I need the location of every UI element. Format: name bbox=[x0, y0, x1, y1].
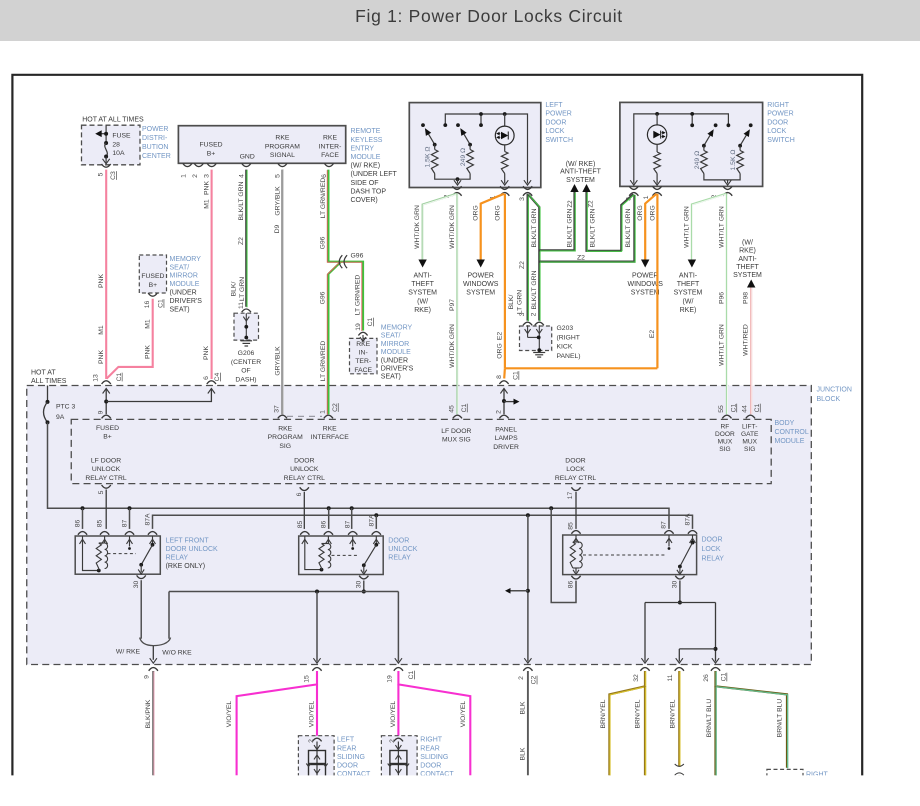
Body Control Module box bbox=[71, 419, 771, 483]
bus branch to door lock relay 86 bbox=[549, 506, 553, 510]
wire WHT/DK GRN pin2 to BCM 45 C1 bbox=[456, 194, 458, 414]
svg-text:UNLOCK: UNLOCK bbox=[388, 546, 418, 553]
svg-text:HOT AT ALL TIMES: HOT AT ALL TIMES bbox=[82, 117, 144, 124]
svg-text:TER-: TER- bbox=[355, 358, 371, 365]
Remote Keyless Entry Module box bbox=[178, 126, 345, 164]
svg-text:SWITCH: SWITCH bbox=[767, 137, 795, 144]
svg-text:FUSED: FUSED bbox=[199, 142, 222, 149]
svg-text:BRN/LT BLU: BRN/LT BLU bbox=[777, 699, 784, 738]
svg-text:G96: G96 bbox=[320, 236, 327, 249]
svg-text:E2: E2 bbox=[497, 332, 504, 341]
svg-text:PNK: PNK bbox=[144, 345, 151, 359]
svg-text:1.5K Ω: 1.5K Ω bbox=[425, 147, 432, 168]
svg-text:ANTI-: ANTI- bbox=[413, 273, 432, 280]
svg-text:87A: 87A bbox=[144, 513, 151, 526]
svg-text:17: 17 bbox=[567, 492, 574, 500]
svg-text:M1: M1 bbox=[144, 319, 151, 329]
wire Z2 horizontal bus bbox=[539, 195, 634, 262]
dashed connector tie 37-1 bbox=[287, 415, 322, 417]
svg-text:G206: G206 bbox=[238, 350, 255, 357]
wire GRY/BLK RKE program signal pin5 to BCM 37 bbox=[281, 170, 283, 415]
svg-text:8: 8 bbox=[496, 375, 503, 379]
wire LT GRN/RED RKE interface pin6 to BCM 1 C2 bbox=[328, 170, 341, 262]
wire BLK/LT GRN right pin3 diagonal branch bbox=[621, 194, 633, 251]
wire BRN/YEL from exit 11 bbox=[678, 671, 680, 767]
svg-text:85: 85 bbox=[568, 522, 575, 530]
svg-text:ALL TIMES: ALL TIMES bbox=[31, 378, 67, 385]
junction entry 6 C4 bbox=[207, 381, 216, 384]
svg-text:C1: C1 bbox=[116, 372, 123, 381]
right switch pins 3 1 2 bbox=[629, 186, 638, 189]
relay3 pins 85 87 87A bbox=[571, 531, 580, 534]
svg-text:1.5K Ω: 1.5K Ω bbox=[730, 150, 737, 171]
svg-text:Z2: Z2 bbox=[567, 200, 574, 208]
svg-text:26: 26 bbox=[703, 674, 710, 682]
svg-text:C1: C1 bbox=[367, 317, 374, 326]
wire BRN/LT BLU from exit 26 C1 bbox=[716, 671, 788, 768]
svg-text:M1: M1 bbox=[204, 199, 211, 209]
svg-text:6: 6 bbox=[296, 492, 303, 496]
svg-text:ANTI-THEFT: ANTI-THEFT bbox=[560, 169, 602, 176]
splice G96 branch to RKE interface connector bbox=[341, 262, 363, 331]
svg-text:MIRROR: MIRROR bbox=[170, 273, 198, 280]
svg-text:85: 85 bbox=[97, 520, 104, 528]
svg-text:19: 19 bbox=[355, 323, 362, 331]
svg-text:RKE: RKE bbox=[323, 135, 337, 142]
svg-text:1: 1 bbox=[320, 410, 327, 414]
svg-text:Z2: Z2 bbox=[588, 200, 595, 208]
svg-text:FUSED: FUSED bbox=[96, 425, 119, 432]
svg-text:(RIGHT: (RIGHT bbox=[557, 334, 580, 341]
svg-text:C1: C1 bbox=[754, 403, 761, 412]
BCM pin 37 bbox=[278, 415, 287, 418]
svg-text:LT GRN/RED: LT GRN/RED bbox=[320, 341, 327, 382]
svg-text:5: 5 bbox=[98, 172, 105, 176]
svg-text:249 Ω: 249 Ω bbox=[460, 148, 467, 166]
svg-text:2: 2 bbox=[389, 739, 396, 743]
BCM pin 17 to relay3 85 bbox=[571, 487, 580, 490]
svg-text:87A: 87A bbox=[368, 514, 375, 527]
svg-text:87: 87 bbox=[661, 521, 668, 529]
svg-text:LOCK: LOCK bbox=[566, 466, 585, 473]
svg-text:SEAT/: SEAT/ bbox=[170, 264, 190, 271]
wire BLK/LT GRN left pin3 to G203 pin3 bbox=[526, 194, 528, 321]
wire BLK/LT GRN GND pin4 to G206 bbox=[245, 170, 247, 307]
svg-text:RKE: RKE bbox=[356, 341, 370, 348]
svg-text:RF: RF bbox=[721, 424, 730, 431]
svg-text:(W/: (W/ bbox=[683, 298, 694, 305]
BCM pin 45 C1 bbox=[453, 415, 462, 418]
wire PNK memory seat module to junction 13 C1 bbox=[107, 299, 153, 379]
internal wire panel lamps from 8 C1 bbox=[503, 389, 505, 415]
svg-text:Z2: Z2 bbox=[238, 237, 245, 245]
Door Unlock Relay box bbox=[299, 536, 384, 575]
svg-text:(W/: (W/ bbox=[417, 298, 428, 305]
svg-text:COVER): COVER) bbox=[351, 197, 378, 204]
svg-text:ORG: ORG bbox=[497, 343, 504, 358]
svg-text:ANTI-: ANTI- bbox=[738, 256, 757, 263]
svg-text:SYSTEM: SYSTEM bbox=[733, 272, 762, 279]
svg-text:1: 1 bbox=[181, 174, 188, 178]
right LED indicator bbox=[656, 114, 658, 125]
svg-text:2: 2 bbox=[192, 174, 199, 178]
svg-text:REMOTE: REMOTE bbox=[351, 128, 381, 135]
relay1 switch bbox=[127, 539, 133, 544]
svg-text:FUSED: FUSED bbox=[141, 273, 164, 280]
Left Rear Sliding Door Contact box bbox=[298, 736, 334, 790]
wire PNK fused B+ pin3 to junction block 6 C4 bbox=[211, 170, 213, 379]
svg-text:249 Ω: 249 Ω bbox=[694, 151, 701, 169]
wire BLK from exit 2 C2 bbox=[527, 671, 529, 775]
svg-text:C2: C2 bbox=[531, 675, 538, 684]
svg-text:PNK: PNK bbox=[98, 274, 105, 288]
LED indicator bbox=[504, 114, 506, 126]
right switch top rail bbox=[634, 114, 729, 184]
svg-text:G96: G96 bbox=[320, 291, 327, 304]
svg-text:KICK: KICK bbox=[557, 344, 573, 351]
svg-text:LAMPS: LAMPS bbox=[495, 435, 519, 442]
resistor merge to pin 2 bbox=[435, 174, 470, 180]
svg-text:13: 13 bbox=[92, 374, 99, 382]
right switch arm 2 bbox=[740, 134, 747, 146]
W/RKE W/O RKE brace bbox=[140, 638, 154, 646]
svg-text:SYSTEM: SYSTEM bbox=[466, 290, 495, 297]
svg-text:86: 86 bbox=[320, 521, 327, 529]
svg-text:UNLOCK: UNLOCK bbox=[290, 466, 319, 473]
svg-text:RKE: RKE bbox=[323, 426, 337, 433]
svg-text:(RKE ONLY): (RKE ONLY) bbox=[166, 563, 206, 570]
unlock bus from relay2 30 bbox=[363, 581, 365, 592]
svg-text:UNLOCK: UNLOCK bbox=[92, 466, 121, 473]
relay1 30 wire to W/RKE brace bbox=[140, 580, 142, 639]
svg-text:C2: C2 bbox=[332, 403, 339, 412]
svg-text:REAR: REAR bbox=[337, 745, 356, 752]
svg-text:11: 11 bbox=[667, 674, 674, 681]
svg-text:PROGRAM: PROGRAM bbox=[268, 434, 303, 441]
svg-text:(W/ RKE): (W/ RKE) bbox=[351, 163, 381, 170]
pin 5 C3 connector of fuse bbox=[102, 164, 111, 167]
svg-text:LOCK: LOCK bbox=[702, 546, 721, 553]
svg-text:3: 3 bbox=[519, 197, 526, 201]
LED resistor bbox=[504, 145, 506, 152]
wire BLK/LT GRN to anti-theft arrow 2 bbox=[587, 192, 622, 251]
Right Power Door Lock Switch box bbox=[620, 102, 763, 186]
svg-text:BLK: BLK bbox=[520, 701, 527, 714]
svg-text:SIG: SIG bbox=[279, 443, 291, 450]
svg-text:C3: C3 bbox=[110, 171, 117, 180]
PTC 3 9A circuit breaker bbox=[47, 386, 49, 402]
switch arm 1 bbox=[428, 133, 435, 145]
BCM pin 44 C1 bbox=[746, 415, 755, 418]
svg-text:87: 87 bbox=[345, 521, 352, 529]
svg-text:ENTRY: ENTRY bbox=[351, 145, 375, 152]
svg-text:2: 2 bbox=[518, 676, 525, 680]
svg-text:ORG: ORG bbox=[637, 205, 644, 220]
junction entry 13 C1 bbox=[102, 381, 111, 384]
svg-text:BLOCK: BLOCK bbox=[817, 396, 841, 403]
svg-text:Fig 1: Power Door Locks Circui: Fig 1: Power Door Locks Circuit bbox=[355, 6, 623, 26]
svg-text:DOOR: DOOR bbox=[388, 538, 409, 545]
svg-text:DOOR: DOOR bbox=[702, 537, 723, 544]
svg-text:DOOR: DOOR bbox=[767, 119, 788, 126]
svg-text:WHT/RED: WHT/RED bbox=[743, 324, 750, 356]
svg-text:SYSTEM: SYSTEM bbox=[631, 290, 660, 297]
svg-text:OF: OF bbox=[241, 368, 250, 375]
svg-text:(UNDER: (UNDER bbox=[381, 357, 408, 364]
svg-text:C1: C1 bbox=[461, 403, 468, 412]
svg-text:RKE): RKE) bbox=[680, 307, 697, 314]
svg-text:Z2: Z2 bbox=[519, 261, 526, 269]
svg-text:PNK: PNK bbox=[204, 181, 211, 195]
87A bus branch down to BLK exit 2 C2 bbox=[526, 513, 530, 517]
svg-text:6: 6 bbox=[203, 376, 210, 380]
switch internal top rail bbox=[445, 114, 527, 184]
wire WHT/DK GRN branch to anti-theft system bbox=[423, 194, 457, 260]
svg-text:WHT/LT GRN: WHT/LT GRN bbox=[684, 206, 691, 248]
svg-text:DOOR: DOOR bbox=[545, 119, 566, 126]
junction block body bbox=[27, 386, 812, 665]
svg-text:W/ RKE: W/ RKE bbox=[116, 648, 141, 655]
svg-text:BLK/PNK: BLK/PNK bbox=[145, 699, 152, 728]
svg-text:BRN/LT BLU: BRN/LT BLU bbox=[706, 699, 713, 738]
wire PTC to relay bus bbox=[48, 422, 670, 529]
svg-text:3: 3 bbox=[519, 312, 526, 316]
junction block exits bbox=[150, 658, 157, 663]
svg-text:SEAT/: SEAT/ bbox=[381, 333, 401, 340]
relay1 pins 86 85 87 87A bbox=[78, 532, 87, 535]
BCM pin 6 to relay2 85 bbox=[300, 487, 309, 490]
svg-text:19: 19 bbox=[387, 675, 394, 683]
svg-text:FUSE: FUSE bbox=[112, 133, 131, 140]
pin 11 of G206 bbox=[242, 309, 251, 312]
svg-text:RELAY CTRL: RELAY CTRL bbox=[85, 475, 127, 482]
svg-text:MUX: MUX bbox=[742, 439, 757, 446]
relay1 pin 30 bbox=[137, 575, 146, 578]
svg-text:10A: 10A bbox=[112, 150, 125, 157]
wire BLK/PNK from exit 9 bbox=[152, 671, 154, 775]
svg-text:DOOR: DOOR bbox=[294, 458, 314, 465]
svg-text:E2: E2 bbox=[649, 330, 656, 339]
svg-text:BLK: BLK bbox=[520, 747, 527, 760]
RKE module pins 1 2 3 4 5 6 bbox=[183, 163, 192, 166]
svg-text:28: 28 bbox=[112, 141, 120, 148]
relay feed bus drops bbox=[81, 506, 85, 510]
svg-text:P97: P97 bbox=[449, 299, 456, 311]
right switch arm 1 bbox=[704, 134, 711, 146]
svg-text:ANTI-: ANTI- bbox=[679, 273, 698, 280]
svg-text:B+: B+ bbox=[103, 434, 112, 441]
svg-text:ORG: ORG bbox=[494, 205, 501, 220]
resistor 1.5K ohm bbox=[434, 145, 436, 150]
svg-text:PTC 3: PTC 3 bbox=[56, 404, 75, 411]
svg-text:2: 2 bbox=[308, 739, 315, 743]
svg-text:PNK: PNK bbox=[98, 350, 105, 364]
svg-text:CONTROL: CONTROL bbox=[775, 429, 809, 436]
svg-text:P98: P98 bbox=[743, 292, 750, 304]
resistor 249 ohm bbox=[469, 145, 471, 150]
svg-text:SIDE OF: SIDE OF bbox=[351, 180, 379, 187]
svg-text:WINDOWS: WINDOWS bbox=[463, 281, 499, 288]
svg-text:(UNDER: (UNDER bbox=[170, 290, 197, 297]
svg-text:MEMORY: MEMORY bbox=[170, 256, 202, 263]
relay2 switch bbox=[350, 539, 356, 544]
fuse F28 10A bbox=[105, 125, 107, 143]
svg-text:C1: C1 bbox=[158, 299, 165, 308]
svg-text:GND: GND bbox=[240, 153, 255, 160]
svg-text:SWITCH: SWITCH bbox=[545, 137, 573, 144]
svg-text:16: 16 bbox=[144, 301, 151, 309]
svg-text:30: 30 bbox=[672, 581, 679, 589]
svg-text:SLIDING: SLIDING bbox=[337, 754, 365, 761]
svg-text:9A: 9A bbox=[56, 414, 65, 421]
Right bottom module box bbox=[767, 769, 803, 790]
relay3 coil bbox=[573, 538, 579, 543]
svg-text:2: 2 bbox=[496, 410, 503, 414]
Left Front Door Unlock Relay box bbox=[75, 536, 160, 574]
svg-text:DOOR: DOOR bbox=[420, 763, 441, 770]
resistor 1.5K ohm right bbox=[739, 146, 741, 151]
svg-text:GATE: GATE bbox=[741, 431, 759, 438]
svg-text:WHT/DK GRN: WHT/DK GRN bbox=[449, 324, 456, 368]
wire VIO/YEL from exit 15 bbox=[237, 671, 317, 775]
BCM pin 1 C2 bbox=[324, 415, 333, 418]
svg-text:DOOR: DOOR bbox=[565, 458, 585, 465]
svg-text:HOT AT: HOT AT bbox=[31, 370, 56, 377]
svg-text:MODULE: MODULE bbox=[381, 349, 411, 356]
svg-text:RELAY CTRL: RELAY CTRL bbox=[555, 475, 597, 482]
svg-text:D9: D9 bbox=[274, 224, 281, 233]
svg-text:POWER: POWER bbox=[632, 273, 658, 280]
svg-text:POWER: POWER bbox=[545, 111, 571, 118]
svg-text:DRIVER'S: DRIVER'S bbox=[381, 366, 414, 373]
wire WHT/LT GRN branch to anti-theft right bbox=[692, 194, 726, 260]
svg-text:LIFT-: LIFT- bbox=[742, 424, 757, 431]
svg-text:SIG: SIG bbox=[719, 446, 730, 453]
svg-text:RKE): RKE) bbox=[414, 307, 431, 314]
svg-text:BRN/YEL: BRN/YEL bbox=[635, 699, 642, 728]
relay2 pins 85 86 87 87A bbox=[300, 532, 309, 535]
svg-text:RKE: RKE bbox=[278, 426, 292, 433]
svg-text:RELAY CTRL: RELAY CTRL bbox=[284, 475, 326, 482]
svg-text:INTER-: INTER- bbox=[319, 143, 342, 150]
relay3 switch bbox=[666, 538, 672, 543]
svg-text:11: 11 bbox=[238, 302, 245, 309]
junction entry 8 C1 bbox=[499, 381, 508, 384]
svg-text:DRIVER'S: DRIVER'S bbox=[170, 298, 203, 305]
svg-text:POWER: POWER bbox=[767, 111, 793, 118]
svg-text:SYSTEM: SYSTEM bbox=[408, 290, 437, 297]
svg-text:87A: 87A bbox=[685, 513, 692, 526]
relay2 coil bbox=[302, 539, 308, 544]
svg-text:RIGHT: RIGHT bbox=[767, 102, 790, 109]
right LED resistor bbox=[656, 144, 658, 152]
svg-text:B+: B+ bbox=[207, 150, 216, 157]
wire VIO/YEL from exit 19 bbox=[398, 671, 470, 775]
switch arm 2 bbox=[463, 133, 470, 145]
RKE interface connector box (memory seat/mirror module) bbox=[358, 332, 367, 335]
title bar bbox=[0, 0, 920, 41]
svg-text:LT GRN/RED: LT GRN/RED bbox=[320, 178, 327, 219]
wire ORG branch to power windows system left bbox=[481, 194, 504, 260]
svg-text:MUX SIG: MUX SIG bbox=[442, 437, 471, 444]
svg-text:WHT/DK GRN: WHT/DK GRN bbox=[414, 205, 421, 249]
svg-text:ORG: ORG bbox=[473, 205, 480, 220]
svg-text:RKE): RKE) bbox=[739, 248, 756, 255]
svg-text:4: 4 bbox=[239, 174, 246, 178]
svg-text:BLK/LT GRN: BLK/LT GRN bbox=[590, 208, 597, 247]
svg-text:MODULE: MODULE bbox=[775, 438, 805, 445]
BCM pin 2 bbox=[499, 415, 508, 418]
svg-text:BLK/LT GRN: BLK/LT GRN bbox=[531, 270, 538, 309]
wire ORG E2 left vertical and to junction 8 C1 bbox=[504, 194, 506, 368]
svg-text:P96: P96 bbox=[718, 292, 725, 304]
svg-text:BRN/YEL: BRN/YEL bbox=[600, 699, 607, 728]
svg-text:DOOR: DOOR bbox=[715, 431, 735, 438]
svg-text:BLK/: BLK/ bbox=[508, 295, 515, 310]
svg-text:55: 55 bbox=[718, 405, 725, 413]
svg-text:2: 2 bbox=[531, 312, 538, 316]
svg-text:KEYLESS: KEYLESS bbox=[351, 137, 383, 144]
svg-text:30: 30 bbox=[133, 581, 140, 589]
svg-text:DOOR UNLOCK: DOOR UNLOCK bbox=[166, 546, 218, 553]
svg-text:87: 87 bbox=[121, 520, 128, 528]
relay3 pins 86 and 30 bbox=[571, 576, 580, 579]
svg-text:DASH): DASH) bbox=[235, 376, 256, 383]
svg-text:W/O RKE: W/O RKE bbox=[162, 650, 192, 657]
svg-text:POWER: POWER bbox=[142, 126, 168, 133]
left switch pins 2 1 3 bbox=[452, 186, 461, 189]
svg-text:32: 32 bbox=[633, 674, 640, 682]
svg-text:LF DOOR: LF DOOR bbox=[91, 458, 121, 465]
svg-text:C1: C1 bbox=[513, 371, 520, 380]
wire BLK/LT GRN to anti-theft arrow 1 bbox=[539, 192, 574, 250]
svg-text:LEFT FRONT: LEFT FRONT bbox=[166, 538, 210, 545]
Left Power Door Lock Switch box bbox=[409, 103, 541, 188]
resistor 249 ohm right bbox=[703, 146, 705, 151]
svg-text:SYSTEM: SYSTEM bbox=[566, 177, 595, 184]
svg-text:BODY: BODY bbox=[775, 420, 795, 427]
wire ORG E2 horizontal run bbox=[505, 367, 658, 369]
svg-text:M1: M1 bbox=[98, 325, 105, 335]
svg-text:RELAY: RELAY bbox=[702, 556, 725, 563]
switch contacts bbox=[421, 123, 425, 127]
svg-text:RIGHT: RIGHT bbox=[420, 737, 443, 744]
svg-text:SLIDING: SLIDING bbox=[420, 754, 448, 761]
svg-text:THEFT: THEFT bbox=[411, 281, 434, 288]
svg-text:LOCK: LOCK bbox=[767, 128, 786, 135]
Door Lock Relay box bbox=[563, 535, 697, 575]
svg-text:BLK/: BLK/ bbox=[230, 282, 237, 297]
svg-text:SIGNAL: SIGNAL bbox=[270, 152, 295, 159]
svg-text:CENTER: CENTER bbox=[142, 153, 171, 160]
wire PNK from fuse to junction block 13 C1 bbox=[105, 170, 107, 379]
internal wire fused B+ to BCM pin 9 bbox=[105, 389, 107, 415]
wire BLK/LT GRN left pin3 branch to Z2 bus bbox=[529, 195, 540, 321]
BCM pin 55 C1 bbox=[722, 415, 731, 418]
BCM pin 5 to relay1 85 bbox=[102, 485, 111, 488]
svg-text:MODULE: MODULE bbox=[351, 154, 381, 161]
svg-text:SEAT): SEAT) bbox=[170, 306, 190, 313]
svg-text:WHT/LT GRN: WHT/LT GRN bbox=[719, 324, 726, 366]
svg-text:Z2: Z2 bbox=[577, 254, 585, 261]
svg-text:VIO/YEL: VIO/YEL bbox=[390, 701, 397, 728]
svg-text:GRY/BLK: GRY/BLK bbox=[274, 186, 281, 216]
relay2 pin 30 bbox=[359, 576, 368, 579]
svg-text:30: 30 bbox=[356, 581, 363, 589]
svg-text:LEFT: LEFT bbox=[545, 102, 563, 109]
svg-text:PROGRAM: PROGRAM bbox=[265, 143, 300, 150]
svg-text:C4: C4 bbox=[214, 372, 221, 381]
